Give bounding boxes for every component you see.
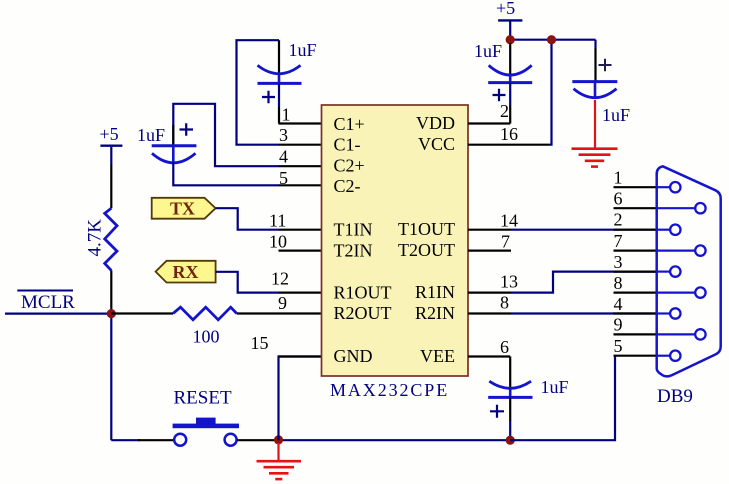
reset button left lead (138, 439, 174, 441)
svg-text:TX: TX (170, 199, 195, 219)
wire top rail (510, 39, 595, 41)
svg-text:MCLR: MCLR (21, 292, 75, 313)
DB9 pin 8 stub (614, 292, 657, 294)
capacitor C5 bottom lead (509, 397, 511, 421)
resistor R2 100 (173, 307, 237, 346)
pin 5 stub C2- (279, 184, 322, 186)
capacitor C4 1uF (top right) (572, 40, 630, 125)
svg-text:10: 10 (269, 231, 287, 251)
capacitor C3 1uF (top, at VDD) (474, 41, 532, 101)
svg-text:VEE: VEE (420, 346, 455, 366)
svg-text:1uF: 1uF (474, 41, 502, 61)
DB9 pin 4 stub (614, 312, 657, 314)
pin 16 stub VCC (468, 144, 549, 146)
svg-text:1uF: 1uF (602, 105, 630, 125)
pin 15 stub (279, 355, 322, 357)
wire bottom rail center (279, 439, 511, 441)
svg-text:11: 11 (269, 211, 286, 231)
svg-text:3: 3 (614, 252, 623, 272)
wire TX to pin 11 (216, 208, 279, 230)
op-amp U1 MAX232CPE body (322, 105, 469, 376)
DB9 pin 6 stub (614, 207, 657, 209)
svg-text:T2OUT: T2OUT (398, 240, 455, 260)
svg-text:T2IN: T2IN (334, 240, 373, 260)
resistor R2 100 lead right / pin 9 stub (237, 312, 322, 314)
capacitor C2 1uF loop top wire (173, 104, 278, 166)
node junction top B (547, 35, 556, 44)
node junction top A (506, 35, 515, 44)
reset button right lead (237, 439, 279, 441)
DB9 pin 7 stub (614, 250, 657, 252)
svg-text:T1OUT: T1OUT (398, 219, 455, 239)
U1 pin names right (398, 113, 455, 366)
U1 pin names left (334, 114, 392, 366)
node junction bottom center (274, 435, 283, 444)
port RX (156, 261, 216, 283)
ground (bottom center) (257, 443, 302, 479)
svg-text:VDD: VDD (416, 113, 455, 133)
svg-text:4: 4 (614, 294, 623, 314)
DB9 holes right column pins 6,7,8,9 (695, 203, 705, 340)
pin 13 stub R1IN (468, 292, 511, 294)
svg-text:14: 14 (500, 211, 518, 231)
DB9 holes left column pins 1,2,3,4,5 (670, 182, 680, 361)
svg-text:T1IN: T1IN (334, 220, 373, 240)
node junction MCLR (107, 309, 116, 318)
svg-text:2: 2 (500, 101, 509, 121)
svg-text:+5: +5 (100, 124, 119, 144)
pin 1 stub C1+ (279, 122, 322, 124)
svg-text:1: 1 (282, 105, 291, 125)
capacitor C2 1uF (137, 123, 196, 163)
wire GND pin15 riser (279, 357, 322, 441)
wire VCC riser (549, 40, 552, 145)
svg-text:5: 5 (279, 168, 288, 188)
DB9 pin 3 stub (614, 271, 657, 273)
svg-text:8: 8 (614, 273, 623, 293)
pin 10 stub T2IN (279, 250, 322, 252)
wire T1OUT to DB9 pin2 (511, 229, 657, 231)
wire bottom rail left (111, 439, 140, 441)
svg-text:6: 6 (614, 189, 623, 209)
svg-text:1uF: 1uF (289, 40, 317, 60)
connector J1 DB9 shell (657, 166, 721, 376)
svg-text:1: 1 (614, 168, 623, 188)
svg-text:100: 100 (193, 327, 220, 347)
svg-text:9: 9 (614, 315, 623, 335)
pin 2 stub VDD (468, 122, 510, 124)
svg-text:VCC: VCC (418, 134, 455, 154)
svg-text:C2-: C2- (334, 176, 361, 196)
svg-text:12: 12 (271, 269, 289, 289)
svg-text:RESET: RESET (174, 388, 232, 409)
port TX (152, 198, 216, 219)
wire RX to pin 12 (216, 272, 279, 293)
svg-text:7: 7 (501, 231, 510, 251)
capacitor C2 bottom lead / pin 5 wire (173, 162, 278, 185)
DB9 pin 1 stub (614, 186, 657, 188)
svg-text:MAX232CPE: MAX232CPE (330, 380, 449, 400)
pin 4 stub C2+ (279, 165, 322, 167)
svg-text:GND: GND (334, 346, 373, 366)
resistor R1 4.7K (85, 165, 118, 311)
pin 11 stub T1IN (279, 229, 322, 231)
svg-text:R2OUT: R2OUT (334, 303, 392, 323)
svg-text:4: 4 (279, 147, 288, 167)
svg-text:15: 15 (251, 333, 269, 353)
pin 6 stub VEE (468, 355, 510, 357)
svg-text:+5: +5 (496, 0, 515, 18)
svg-text:13: 13 (500, 272, 518, 292)
svg-text:2: 2 (614, 210, 623, 230)
svg-text:R1OUT: R1OUT (334, 282, 392, 302)
net label MCLR (17, 291, 75, 314)
svg-text:6: 6 (500, 337, 509, 357)
svg-text:8: 8 (500, 293, 509, 313)
switch RESET button (173, 418, 239, 446)
svg-text:DB9: DB9 (657, 386, 693, 407)
capacitor C1 1uF (258, 40, 317, 103)
svg-text:C2+: C2+ (334, 156, 365, 176)
svg-text:4.7K: 4.7K (85, 219, 106, 257)
svg-text:R2IN: R2IN (415, 303, 455, 323)
resistor R2 100 lead left (111, 312, 173, 314)
DB9 pin 9 stub (614, 333, 657, 335)
svg-text:RX: RX (173, 262, 199, 282)
capacitor C3 bottom lead (509, 83, 511, 105)
DB9 inner pin lines (657, 187, 695, 356)
svg-text:1uF: 1uF (137, 125, 165, 145)
connector J1 DB9 pin stubs and labels (614, 168, 657, 357)
svg-text:C1-: C1- (334, 135, 361, 155)
wire R2IN to DB9 pin4 (511, 312, 657, 314)
power +5 (top) (496, 0, 522, 36)
capacitor C1 1uF loop wire (237, 40, 280, 145)
power +5 (left) (100, 124, 123, 165)
svg-text:C1+: C1+ (334, 114, 365, 134)
pin 7 stub T2OUT (468, 250, 511, 252)
svg-text:5: 5 (614, 336, 623, 356)
wire junction down to bottom rail (110, 314, 112, 441)
pin 8 stub R2IN (468, 312, 511, 314)
DB9 pin 2 stub (614, 229, 657, 231)
svg-text:7: 7 (614, 231, 623, 251)
pin 3 stub C1- (279, 144, 322, 146)
svg-text:16: 16 (500, 124, 518, 144)
svg-text:3: 3 (279, 125, 288, 145)
capacitor C1 bottom lead (278, 83, 280, 107)
wire MCLR to junction (5, 313, 111, 315)
svg-text:R1IN: R1IN (415, 282, 455, 302)
ground (top right) (572, 100, 618, 167)
capacitor C5 1uF (at VEE) (488, 357, 568, 418)
wire R1IN to DB9 pin3 (511, 272, 657, 293)
svg-text:1uF: 1uF (541, 377, 569, 397)
DB9 pin 5 stub (614, 355, 657, 357)
node junction bottom right (506, 436, 515, 445)
wire bottom rail right to DB9 pin5 (510, 356, 615, 441)
pin 12 stub R1OUT (279, 292, 322, 294)
pin 14 stub T1OUT (468, 229, 511, 231)
svg-text:9: 9 (278, 293, 287, 313)
